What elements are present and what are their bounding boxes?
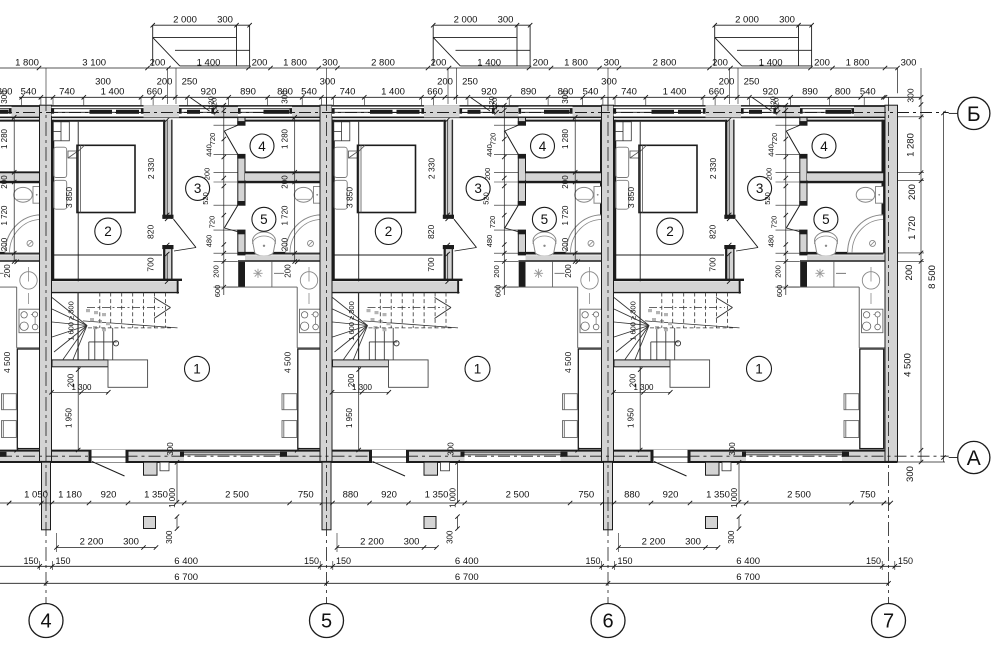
chair 2 [844, 421, 859, 438]
kitchen counter [507, 286, 578, 288]
room5 east line [320, 182, 322, 253]
axis A dashed centerline [0, 455, 92, 457]
svg-text:890: 890 [240, 87, 256, 98]
gas symbol [819, 269, 821, 278]
kitchen sink [300, 272, 317, 289]
svg-text:200: 200 [561, 175, 570, 189]
svg-text:200: 200 [561, 237, 570, 251]
svg-text:1 280: 1 280 [0, 128, 9, 149]
svg-text:1 800: 1 800 [283, 57, 307, 68]
bottom dim row2 [57, 547, 157, 549]
svg-text:1 800: 1 800 [846, 57, 870, 68]
svg-text:480: 480 [204, 235, 213, 248]
svg-text:120: 120 [207, 96, 216, 109]
wall under bedroom [614, 281, 741, 292]
room4 outline [0, 120, 41, 122]
wall between doors [238, 154, 245, 205]
window W2 hall [741, 107, 776, 117]
washbasin [533, 232, 556, 256]
svg-text:1 950: 1 950 [627, 407, 636, 428]
bedroom left lining [332, 120, 334, 279]
kitchen sink [862, 272, 879, 289]
window W3 room4 [238, 107, 292, 117]
svg-text:300: 300 [95, 77, 111, 88]
bottom window [184, 452, 280, 461]
chair 1 [282, 394, 297, 410]
top dim row4 chain [39, 95, 43, 99]
rooms 4/5 west wall upper [238, 117, 245, 125]
svg-text:4: 4 [258, 139, 266, 154]
svg-text:2 330: 2 330 [427, 158, 437, 180]
chair 1 [2, 394, 17, 410]
grid axis lines [45, 97, 47, 603]
svg-text:200: 200 [0, 237, 9, 251]
svg-text:150: 150 [585, 556, 600, 566]
svg-text:1 720: 1 720 [561, 205, 570, 226]
kitchen west wall [800, 262, 807, 287]
kitchen counter [227, 286, 298, 288]
extension lines to wall [40, 97, 42, 105]
porch wall stub [424, 462, 438, 475]
svg-text:1 400: 1 400 [197, 57, 221, 68]
svg-text:520: 520 [482, 192, 491, 205]
svg-text:200: 200 [814, 57, 830, 68]
svg-text:1 280: 1 280 [906, 133, 917, 157]
wall under stairs [52, 360, 108, 367]
understair closet [108, 360, 148, 387]
dim 1950 [358, 392, 360, 450]
bedroom left lining [614, 120, 616, 279]
rooms 4/5 west wall upper [518, 117, 525, 125]
svg-text:2: 2 [104, 224, 112, 239]
stair upper flight dashed [99, 293, 101, 328]
svg-text:540: 540 [583, 87, 599, 98]
svg-text:6 400: 6 400 [736, 556, 760, 567]
room 3 circle [466, 176, 490, 200]
window W2 hall [460, 107, 495, 117]
svg-text:1 280: 1 280 [561, 128, 570, 149]
svg-text:4: 4 [539, 139, 547, 154]
wall under bedroom [52, 281, 179, 292]
top dim row1 [433, 24, 530, 26]
party wall [602, 105, 614, 461]
room5 east line [600, 182, 602, 253]
svg-text:2 800: 2 800 [371, 57, 395, 68]
door5 leaf [505, 205, 519, 228]
party wall stub below axis A [604, 462, 613, 530]
bedroom door leaf [454, 219, 477, 247]
bed [77, 145, 135, 212]
washbasin [253, 232, 276, 256]
bedroom right wall lower piece [444, 245, 454, 279]
entry door leaf [372, 456, 406, 458]
svg-text:1 280: 1 280 [281, 128, 290, 149]
row2 extension verticals [729, 68, 731, 104]
door jamb top [443, 215, 454, 219]
door jamb top [162, 215, 173, 219]
svg-text:700: 700 [708, 257, 718, 271]
entry door leaf [92, 456, 126, 458]
dining table [578, 349, 602, 449]
svg-text:200: 200 [773, 265, 782, 278]
svg-text:200: 200 [431, 57, 447, 68]
svg-text:880: 880 [343, 490, 359, 501]
vent duct box [53, 122, 69, 141]
axis B dashed centerline [0, 112, 949, 114]
svg-text:740: 740 [340, 87, 356, 98]
pillow 2 [334, 180, 347, 209]
kitchen north wall [0, 255, 44, 260]
porch step mark [722, 462, 731, 471]
svg-text:6 700: 6 700 [736, 572, 760, 583]
room 1 circle [185, 356, 210, 381]
svg-text:150: 150 [336, 556, 351, 566]
bedroom door leaf [736, 219, 759, 247]
chair 2 [282, 421, 297, 438]
chair 2 [563, 421, 578, 438]
top row2 dimension line [0, 67, 898, 69]
svg-text:1 400: 1 400 [759, 57, 783, 68]
bedroom floor-edge line [52, 254, 162, 256]
grid bubble 6 [591, 604, 625, 638]
bedroom left lining [52, 120, 54, 279]
porch roof outline (top) [714, 25, 716, 66]
svg-text:200: 200 [211, 265, 220, 278]
dining table [17, 349, 41, 449]
row2 wall-end extension [897, 68, 899, 93]
room 5 circle [532, 207, 556, 231]
grid bubble 7 [872, 604, 906, 638]
svg-text:300: 300 [604, 57, 620, 68]
bedroom right wall lower piece [163, 245, 173, 279]
svg-text:920: 920 [101, 490, 117, 501]
entry door leaf [654, 456, 688, 458]
stair break line [645, 321, 740, 328]
wall between doors [800, 154, 807, 205]
room4 outline [526, 120, 603, 122]
svg-text:250: 250 [744, 77, 760, 88]
porch roof outline (top) [152, 25, 154, 66]
extension lines to wall [320, 97, 322, 105]
svg-text:Б: Б [967, 103, 981, 126]
window W1 sash [652, 110, 675, 114]
window W1 bedroom [52, 107, 144, 117]
stair break line [83, 321, 178, 328]
stair arrow [435, 298, 452, 308]
svg-text:300: 300 [123, 537, 139, 548]
svg-text:3 850: 3 850 [64, 187, 74, 209]
window W1 sash [90, 110, 113, 114]
svg-text:1 000: 1 000 [730, 487, 739, 508]
door4 leaf [224, 131, 238, 154]
stair upper flight dashed [379, 293, 381, 328]
svg-text:1 600 ≥ 300: 1 600 ≥ 300 [347, 301, 356, 341]
bedroom right wall [444, 120, 454, 219]
stair walk line [87, 307, 163, 309]
svg-text:150: 150 [55, 556, 70, 566]
stove [862, 309, 883, 333]
washbasin [815, 232, 838, 256]
svg-text:300: 300 [727, 530, 736, 544]
room4 outline [245, 120, 322, 122]
svg-text:1 000: 1 000 [168, 487, 177, 508]
stair arrow [716, 298, 733, 308]
svg-text:2 200: 2 200 [642, 537, 666, 548]
porch column [424, 517, 436, 529]
svg-text:700: 700 [146, 257, 156, 271]
svg-text:920: 920 [481, 87, 497, 98]
svg-text:200: 200 [252, 57, 268, 68]
svg-text:300: 300 [165, 530, 174, 544]
dim 2330 line [166, 120, 168, 215]
svg-text:7: 7 [883, 611, 894, 633]
axis B bubble [958, 97, 990, 129]
kitchen sink [581, 272, 598, 289]
stair section hatch [367, 309, 371, 312]
bottom dim row1 ticks [330, 501, 334, 505]
svg-text:200: 200 [203, 168, 212, 181]
stair-edge vertical line [77, 122, 79, 393]
bedroom floor-edge line [614, 254, 724, 256]
pillow 1 [616, 147, 629, 177]
wall between rooms 4 and 5 [245, 173, 322, 180]
svg-text:1 720: 1 720 [0, 205, 9, 226]
hall dim chain [503, 105, 505, 296]
door room4 opening jambs [518, 121, 526, 125]
chair 1 [563, 394, 578, 410]
svg-text:800: 800 [558, 87, 574, 98]
bottom window [746, 452, 842, 461]
toilet [33, 187, 41, 204]
svg-text:660: 660 [427, 87, 443, 98]
room 2 circle [657, 218, 683, 244]
pier between W1/W2 [706, 105, 742, 117]
dining table [298, 349, 322, 449]
dim 2330 line [728, 120, 730, 215]
stair winder treads [333, 298, 368, 326]
hall dim chain [785, 105, 787, 296]
svg-text:1 180: 1 180 [58, 490, 82, 501]
bedroom bottom line [614, 279, 744, 281]
svg-text:120: 120 [769, 96, 778, 109]
bed [639, 145, 697, 212]
top row4 dimension line [19, 96, 921, 98]
svg-text:1 000: 1 000 [449, 487, 458, 508]
door jamb top [724, 215, 735, 219]
wall below door5 [238, 230, 245, 255]
porch column [144, 517, 156, 529]
rooms 4/5 west wall upper [800, 117, 807, 125]
stove [580, 309, 601, 333]
room5 bottom line [0, 252, 41, 255]
svg-text:1 720: 1 720 [281, 205, 290, 226]
svg-text:720: 720 [770, 133, 779, 146]
svg-text:2 330: 2 330 [146, 158, 156, 180]
pier between W1/W2 [144, 105, 180, 117]
bed [358, 145, 416, 212]
svg-text:1: 1 [755, 362, 763, 377]
room 2 circle [375, 218, 401, 244]
svg-text:600: 600 [494, 285, 503, 298]
room 5 circle [252, 207, 276, 231]
svg-text:200: 200 [281, 175, 290, 189]
bottom window [465, 452, 561, 461]
svg-text:150: 150 [617, 556, 632, 566]
kitchen north wall [245, 255, 325, 260]
bottom dim row2 [337, 547, 437, 549]
room5 east line [882, 182, 884, 253]
bottom dim row4 [324, 581, 328, 585]
toilet [314, 187, 322, 204]
svg-text:200: 200 [765, 168, 774, 181]
svg-text:200: 200 [712, 57, 728, 68]
gas symbol [257, 269, 259, 278]
svg-text:300: 300 [322, 57, 338, 68]
extension lines to wall [602, 97, 604, 105]
party wall [40, 105, 52, 461]
room5 bottom line [238, 252, 322, 255]
hall dim chain [223, 105, 225, 296]
svg-text:880: 880 [624, 490, 640, 501]
svg-text:300: 300 [779, 15, 795, 26]
top dim row4 chain [319, 95, 323, 99]
stair arrow [154, 298, 171, 308]
entry door opening [92, 450, 126, 463]
svg-text:200: 200 [719, 77, 735, 88]
svg-text:6 400: 6 400 [455, 556, 479, 567]
window W3 room4 [800, 107, 854, 117]
svg-text:5: 5 [541, 212, 549, 227]
porch column [706, 517, 718, 529]
party wall stub below axis A [42, 462, 51, 530]
shower drain [27, 240, 33, 246]
understair closet [389, 360, 429, 387]
top dim row1 [153, 24, 250, 26]
svg-text:200: 200 [281, 237, 290, 251]
leader line [470, 97, 490, 111]
gas symbol [538, 269, 540, 278]
kitchen sink [20, 272, 37, 289]
room5 bottom line [800, 252, 884, 255]
stair-edge vertical line [639, 122, 641, 393]
shower tray [286, 215, 322, 253]
wall under stairs [614, 360, 670, 367]
newel post [675, 341, 680, 346]
row2 extension verticals [167, 68, 169, 104]
room5 bottom line [518, 252, 602, 255]
svg-text:3 850: 3 850 [626, 187, 636, 209]
door jamb bottom [162, 245, 173, 249]
chair 2 [2, 421, 17, 438]
porch wall stub [144, 462, 158, 475]
shower tray [566, 215, 602, 253]
window-wall pier over bedroom right wall [706, 105, 742, 117]
shower drain [308, 240, 314, 246]
room4/5 east border line [883, 120, 885, 254]
svg-text:1 800: 1 800 [564, 57, 588, 68]
door5 leaf [224, 205, 238, 228]
porch roof outline (top) [432, 25, 434, 66]
bottom dim row2 [619, 547, 719, 549]
svg-text:200: 200 [533, 57, 549, 68]
svg-text:440: 440 [485, 144, 494, 157]
window W1 sash [370, 110, 393, 114]
svg-text:820: 820 [426, 225, 436, 239]
room 3 circle [186, 176, 210, 200]
svg-text:6 700: 6 700 [174, 572, 198, 583]
room 1 circle [465, 356, 490, 381]
bottom dim row1 ticks [50, 501, 54, 505]
svg-text:200: 200 [564, 264, 573, 278]
svg-text:6 400: 6 400 [174, 556, 198, 567]
svg-text:920: 920 [381, 490, 397, 501]
right chains bottom closer [890, 461, 945, 463]
svg-text:1 350: 1 350 [144, 490, 168, 501]
svg-text:740: 740 [59, 87, 75, 98]
room 3 circle [748, 176, 772, 200]
party wall stub below axis A [322, 462, 331, 530]
svg-text:660: 660 [709, 87, 725, 98]
newel post [394, 341, 399, 346]
stair winder treads [52, 298, 87, 326]
exterior right wall [885, 105, 898, 461]
entry door opening [372, 450, 406, 463]
svg-text:4: 4 [40, 611, 51, 633]
svg-text:1: 1 [193, 362, 201, 377]
pillow 1 [334, 147, 347, 177]
door jamb bottom [443, 245, 454, 249]
stair upper flight dashed [661, 293, 663, 328]
door room4 opening jambs [799, 121, 807, 125]
svg-text:2: 2 [666, 224, 674, 239]
bottom row4 line [0, 582, 889, 584]
pillow 2 [54, 180, 67, 209]
svg-text:2 330: 2 330 [708, 158, 718, 180]
svg-text:200: 200 [3, 264, 12, 278]
wall niche mark [349, 151, 359, 158]
door5 leaf [786, 205, 800, 228]
leader line [752, 97, 772, 111]
svg-text:1 300: 1 300 [352, 383, 373, 392]
svg-text:300: 300 [166, 442, 175, 456]
svg-text:250: 250 [182, 77, 198, 88]
window W2 hall [179, 107, 214, 117]
stair section hatch [86, 309, 90, 312]
grid bubble 5 [310, 604, 344, 638]
svg-text:200: 200 [492, 265, 501, 278]
room 4 circle [531, 134, 555, 158]
svg-text:250: 250 [462, 77, 478, 88]
bedroom top lining [333, 120, 444, 122]
svg-text:820: 820 [708, 225, 718, 239]
svg-text:3 100: 3 100 [82, 57, 106, 68]
svg-text:120: 120 [487, 96, 496, 109]
svg-text:720: 720 [770, 216, 779, 229]
stove [19, 309, 40, 333]
kitchen counter [789, 286, 860, 288]
svg-text:300: 300 [217, 15, 233, 26]
horizontal ext lines right [898, 116, 925, 118]
bedroom top lining [52, 120, 163, 122]
svg-text:920: 920 [663, 490, 679, 501]
svg-text:720: 720 [488, 216, 497, 229]
wall under stairs [333, 360, 389, 367]
window W3 room4 [519, 107, 573, 117]
svg-text:300: 300 [728, 442, 737, 456]
vent duct box [615, 122, 631, 141]
svg-text:2 200: 2 200 [80, 537, 104, 548]
svg-text:480: 480 [766, 235, 775, 248]
